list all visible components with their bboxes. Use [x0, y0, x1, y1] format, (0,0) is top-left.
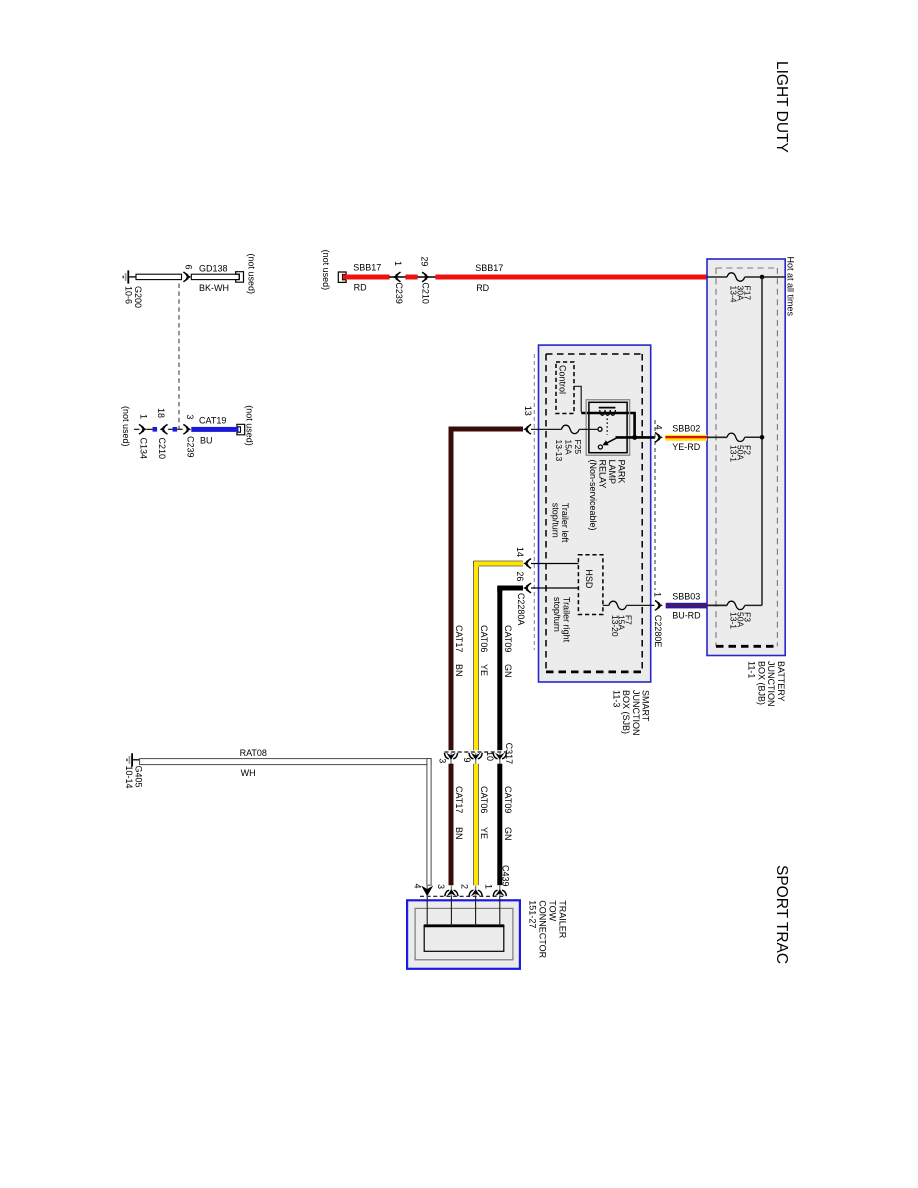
wire RAT08 WH vertical [427, 759, 431, 886]
svg-text:RELAY: RELAY [598, 460, 608, 489]
arrow C317 pin 10 [499, 753, 501, 764]
connector C439 dashed line [420, 895, 504, 897]
svg-text:JUNCTION: JUNCTION [631, 690, 641, 736]
wire corner cleanup [428, 759, 431, 764]
svg-text:WH: WH [241, 768, 256, 778]
fuse F7 15A [609, 601, 627, 609]
wire CAT06 YE horizontal to pin 14 [476, 564, 523, 568]
svg-text:stop/turn: stop/turn [551, 503, 561, 538]
label PARK LAMP RELAY (Non-serviceable) [588, 460, 627, 531]
connector label C210 [157, 438, 167, 460]
wire dash SBB17 RD [405, 275, 417, 280]
svg-text:BN: BN [454, 827, 464, 840]
connector C239 dashed link [178, 284, 180, 429]
svg-text:YE: YE [479, 827, 489, 839]
connector label C439 [501, 865, 511, 887]
terminal (not used) GD138 [236, 272, 244, 283]
connector C2280E dashed line [654, 420, 656, 590]
svg-text:1: 1 [138, 414, 148, 419]
svg-text:stop/turn: stop/turn [552, 597, 562, 632]
svg-text:SMART: SMART [641, 690, 651, 722]
svg-text:YE: YE [479, 664, 489, 676]
wire CAT17 BN vertical upper [449, 428, 454, 750]
wire CAT19 BU [191, 427, 238, 432]
wire F3 to bus [745, 604, 762, 606]
svg-text:4: 4 [413, 884, 423, 889]
svg-text:BU-RD: BU-RD [672, 611, 701, 621]
svg-text:(not used): (not used) [245, 405, 255, 446]
fuse F25 15A [561, 425, 579, 433]
arrow pin 6 [185, 274, 191, 280]
label (not used) [247, 254, 257, 295]
svg-text:G200: G200 [133, 286, 143, 308]
svg-text:CAT09: CAT09 [503, 786, 513, 813]
svg-text:10: 10 [485, 751, 495, 761]
svg-text:GD138: GD138 [199, 263, 228, 273]
svg-text:C317: C317 [504, 743, 514, 765]
svg-text:1: 1 [653, 592, 663, 597]
wire CAT06 YE vertical upper [474, 562, 479, 750]
svg-text:Trailer right: Trailer right [561, 597, 571, 643]
wire name CAT17 lower [454, 786, 464, 813]
battery junction box BJB [707, 259, 785, 656]
connector label C134 [139, 438, 149, 460]
fuse label F7 15A 13-20 [610, 615, 634, 637]
trailer tow connector inner rect [424, 926, 504, 952]
pin label 2 [459, 884, 469, 889]
fuse F17 30A [727, 273, 745, 281]
svg-text:C439: C439 [501, 865, 511, 887]
svg-text:GN: GN [503, 827, 513, 841]
arrow pin 4 [657, 434, 663, 440]
wire color BN lower [454, 827, 464, 840]
wire hot bus vertical [761, 277, 763, 605]
svg-text:LAMP: LAMP [607, 460, 617, 485]
pin label 9 [462, 758, 472, 763]
wire CAT09 GN horizontal to pin 26 [500, 588, 523, 592]
svg-text:(not used): (not used) [121, 406, 131, 447]
wire color BN upper [454, 664, 464, 677]
connector label C2280A [516, 593, 526, 626]
pin label 3 [438, 758, 448, 763]
arrow pin 3 C239 [185, 426, 191, 432]
relay contact pivot circle [598, 445, 602, 449]
fuse label F2 50A 13-1 [729, 445, 753, 462]
pin label 26 [515, 571, 525, 581]
wire CAT17 BN horizontal to pin 13 [451, 429, 523, 433]
svg-text:SBB02: SBB02 [672, 423, 700, 433]
wire name CAT09 lower [503, 786, 513, 813]
svg-text:11-3: 11-3 [611, 690, 621, 707]
svg-text:13: 13 [523, 406, 533, 416]
svg-text:BN: BN [454, 664, 464, 677]
trailer tow connector inner rect top edge [424, 924, 504, 927]
label (not used) SBB17 [321, 250, 331, 291]
svg-text:RD: RD [354, 283, 367, 293]
connector label C2280E [653, 615, 663, 648]
arrow pin 1 C134 [141, 426, 147, 432]
wire stub pin 1 [499, 896, 501, 926]
connector C2280A dashed line [533, 354, 535, 650]
wire stub pin 4 [426, 896, 428, 926]
label Control [558, 365, 568, 394]
svg-text:Hot at all times: Hot at all times [785, 257, 795, 317]
terminal SBB17 left [338, 272, 346, 282]
wire into F2 [707, 436, 727, 438]
svg-text:BOX (SJB): BOX (SJB) [621, 690, 631, 734]
wire stub pin 2 [475, 896, 477, 926]
svg-text:GN: GN [503, 664, 513, 678]
svg-text:14: 14 [515, 547, 525, 557]
wire color YE upper [479, 664, 489, 676]
wire GD138 BK-WH segment 2 [191, 274, 239, 279]
wire SBB17 RD segment 1 [343, 275, 390, 280]
label Hot at all times [785, 257, 795, 317]
pin label 6 [183, 265, 193, 270]
svg-text:RD: RD [476, 283, 489, 293]
fuse label F3 50A 13-1 [729, 612, 753, 629]
wire SBB03 BU-RD [666, 603, 707, 609]
pin label 1 [483, 884, 493, 889]
svg-text:PARK: PARK [617, 460, 627, 484]
svg-text:TOW: TOW [548, 900, 558, 921]
ground G405 [126, 753, 140, 766]
arrow C317 pin 3 [450, 753, 452, 764]
arrow C439 pin 1 [499, 886, 501, 898]
svg-text:151-27: 151-27 [528, 900, 538, 928]
label HSD [584, 569, 594, 589]
title SPORT TRAC [773, 865, 790, 964]
svg-text:2: 2 [459, 884, 469, 889]
smart junction box SJB [539, 345, 651, 682]
wire SBB17 RD segment 2 [417, 276, 435, 278]
relay U1 park lamp relay box outer [586, 400, 629, 456]
wire pin14 to HSD [531, 563, 578, 565]
wire GD138 BK-WH segment 1 [136, 274, 182, 279]
node relay output junction [632, 435, 637, 440]
terminal (not used) CAT19 [237, 424, 245, 435]
relay coil loops [600, 410, 616, 415]
wire F25 to relay [579, 428, 598, 430]
arrow pin 18 C210 [160, 426, 166, 432]
pin label 3 [185, 414, 195, 419]
svg-text:BOX (BJB): BOX (BJB) [756, 661, 766, 705]
svg-text:29: 29 [420, 256, 430, 266]
wire SBB02 YE-RD [665, 435, 707, 441]
arrow C317 pin 9 [475, 753, 477, 764]
svg-text:3: 3 [438, 758, 448, 763]
wire F2 to bus [745, 436, 762, 438]
wire pin13 to fuse F25 [531, 428, 561, 430]
arrow pin 29 C210 [424, 274, 430, 280]
svg-text:6: 6 [183, 265, 193, 270]
wire name CAT09 upper [503, 625, 513, 652]
arrow pin 13 [523, 426, 529, 432]
trailer tow connector box [407, 900, 520, 969]
svg-text:RAT08: RAT08 [240, 748, 267, 758]
fuse label F17 30A 13-4 [729, 286, 753, 303]
wire color GN lower [503, 827, 513, 841]
svg-text:(not used): (not used) [247, 254, 257, 295]
control block dashed box [556, 362, 574, 414]
pin label 1 [393, 261, 403, 266]
trailer tow connector middle rect [415, 908, 513, 959]
wire CAT09 GN vertical lower [497, 764, 502, 886]
wire name CAT06 upper [479, 625, 489, 652]
wire pin26 to HSD [531, 587, 578, 589]
arrow pin 1 [657, 602, 663, 608]
svg-text:BATTERY: BATTERY [776, 661, 786, 702]
pin label 4 [413, 884, 423, 889]
svg-text:YE-RD: YE-RD [672, 442, 701, 452]
svg-text:CAT17: CAT17 [454, 786, 464, 813]
wire HSD to fuse F7 [603, 604, 609, 606]
svg-text:G405: G405 [133, 766, 143, 788]
wire dash CAT19 blue [173, 427, 178, 432]
title LIGHT DUTY [773, 61, 790, 153]
relay switch blade [605, 438, 617, 444]
svg-text:SBB17: SBB17 [353, 262, 381, 272]
pin label 18 [156, 408, 166, 418]
wire color GN upper [503, 664, 513, 678]
wire CAT06 YE vertical lower [474, 764, 479, 886]
arrow C439 pin 4 [426, 885, 428, 897]
svg-text:TRAILER: TRAILER [558, 900, 568, 939]
wire control to coil [574, 386, 581, 412]
wire RAT08 WH horizontal [140, 759, 432, 765]
svg-text:4: 4 [654, 425, 664, 430]
svg-text:SPORT TRAC: SPORT TRAC [773, 865, 790, 964]
connector label C317 [504, 743, 514, 765]
svg-text:(not used): (not used) [321, 250, 331, 291]
relay contact pin circle [598, 427, 602, 431]
label TRAILER TOW CONNECTOR 151-27 [528, 900, 568, 958]
node F2 bus junction [760, 435, 765, 440]
svg-text:13-1: 13-1 [729, 612, 739, 629]
svg-text:13-13: 13-13 [554, 440, 564, 462]
svg-text:CONNECTOR: CONNECTOR [538, 900, 548, 958]
pin label 29 [420, 256, 430, 266]
svg-text:C2280E: C2280E [653, 615, 663, 648]
wire CAT09 GN vertical upper [497, 587, 502, 751]
label SMART JUNCTION BOX (SJB) 11-3 [611, 690, 650, 736]
ground G200 [123, 270, 137, 283]
label G405 10-14 [124, 766, 144, 789]
fuse label F25 15A 13-13 [554, 440, 583, 462]
svg-text:9: 9 [462, 758, 472, 763]
svg-text:3: 3 [436, 884, 446, 889]
label G200 10-6 [124, 286, 144, 308]
svg-text:CAT17: CAT17 [454, 625, 464, 652]
wire coil feed thick [581, 413, 634, 437]
pin label 1 [653, 592, 663, 597]
wire into F3 [707, 604, 727, 606]
svg-text:10-14: 10-14 [124, 766, 134, 789]
wire CAT17 BN vertical lower [449, 764, 454, 886]
svg-text:CAT06: CAT06 [479, 786, 489, 813]
relay U1 park lamp relay box inner [589, 402, 627, 452]
svg-text:11-1: 11-1 [747, 661, 757, 678]
connector C317 dashed line [445, 751, 508, 753]
fuse F2 50A [727, 433, 745, 441]
svg-text:SBB03: SBB03 [672, 592, 700, 602]
HSD dashed box [578, 555, 603, 615]
svg-text:1: 1 [483, 884, 493, 889]
wire color YE lower [479, 827, 489, 839]
svg-text:18: 18 [156, 408, 166, 418]
svg-text:13-1: 13-1 [729, 445, 739, 462]
relay actuation dotted line [606, 419, 608, 435]
wire stub pin 3 [450, 896, 452, 926]
arrow pin 14 [523, 560, 529, 566]
svg-text:Control: Control [558, 365, 568, 394]
pin label 13 [523, 406, 533, 416]
svg-text:C239: C239 [394, 282, 404, 304]
svg-text:3: 3 [185, 414, 195, 419]
BJB inner dashed boundary [716, 268, 777, 646]
wire [147, 428, 153, 430]
svg-text:BU: BU [200, 435, 213, 445]
svg-text:13-4: 13-4 [729, 286, 739, 303]
arrow C439 pin 2 [475, 886, 477, 898]
svg-text:C210: C210 [157, 438, 167, 460]
wire F17 to bus [745, 276, 786, 278]
svg-text:BK-WH: BK-WH [199, 283, 229, 293]
fuse F3 50A [727, 601, 745, 609]
svg-text:CAT19: CAT19 [199, 415, 226, 425]
arrow pin 1 C239 [393, 274, 399, 280]
wire [177, 428, 183, 430]
label BATTERY JUNCTION BOX (BJB) 11-1 [747, 661, 786, 707]
wire into F17 [707, 276, 727, 278]
svg-text:C134: C134 [139, 438, 149, 460]
wire F7 to pin 1 [627, 604, 655, 606]
svg-text:10-6: 10-6 [124, 286, 134, 304]
svg-text:Trailer left: Trailer left [560, 503, 570, 543]
label (not used) C134 [121, 406, 131, 447]
wire dash CAT19 blue [153, 427, 158, 432]
connector label C210 [421, 282, 431, 304]
svg-text:CAT06: CAT06 [479, 625, 489, 652]
label Trailer right stop/turn [552, 597, 572, 643]
svg-text:C210: C210 [421, 282, 431, 304]
pin label 10 [485, 751, 495, 761]
svg-text:HSD: HSD [584, 569, 594, 589]
svg-text:CAT09: CAT09 [503, 625, 513, 652]
label (not used) [245, 405, 255, 446]
wire stub C134 [134, 428, 140, 430]
pin label 3 [436, 884, 446, 889]
wire name CAT17 upper [454, 625, 464, 652]
connector label C239 [186, 436, 196, 458]
node hot bus junction [760, 275, 765, 280]
svg-text:(Non-serviceable): (Non-serviceable) [588, 460, 598, 531]
arrow pin 26 [523, 585, 529, 591]
wire [168, 428, 172, 430]
svg-text:26: 26 [515, 571, 525, 581]
relay coil bar [599, 407, 616, 409]
svg-text:SBB17: SBB17 [475, 263, 503, 273]
wire name CAT06 lower [479, 786, 489, 813]
svg-text:C239: C239 [186, 436, 196, 458]
svg-text:C2280A: C2280A [516, 593, 526, 626]
arrow C439 pin 3 [450, 886, 452, 898]
svg-text:13-20: 13-20 [610, 615, 620, 637]
svg-text:1: 1 [393, 261, 403, 266]
relay switch blade arrowhead [603, 440, 609, 445]
svg-text:LIGHT DUTY: LIGHT DUTY [773, 61, 790, 153]
pin label 1 [138, 414, 148, 419]
SJB inner dashed boundary [546, 354, 642, 672]
connector label C239 [394, 282, 404, 304]
pin label 4 [654, 425, 664, 430]
svg-text:JUNCTION: JUNCTION [766, 661, 776, 707]
label Trailer left stop/turn [551, 503, 571, 543]
wire relay output thick [616, 436, 656, 439]
pin label 14 [515, 547, 525, 557]
